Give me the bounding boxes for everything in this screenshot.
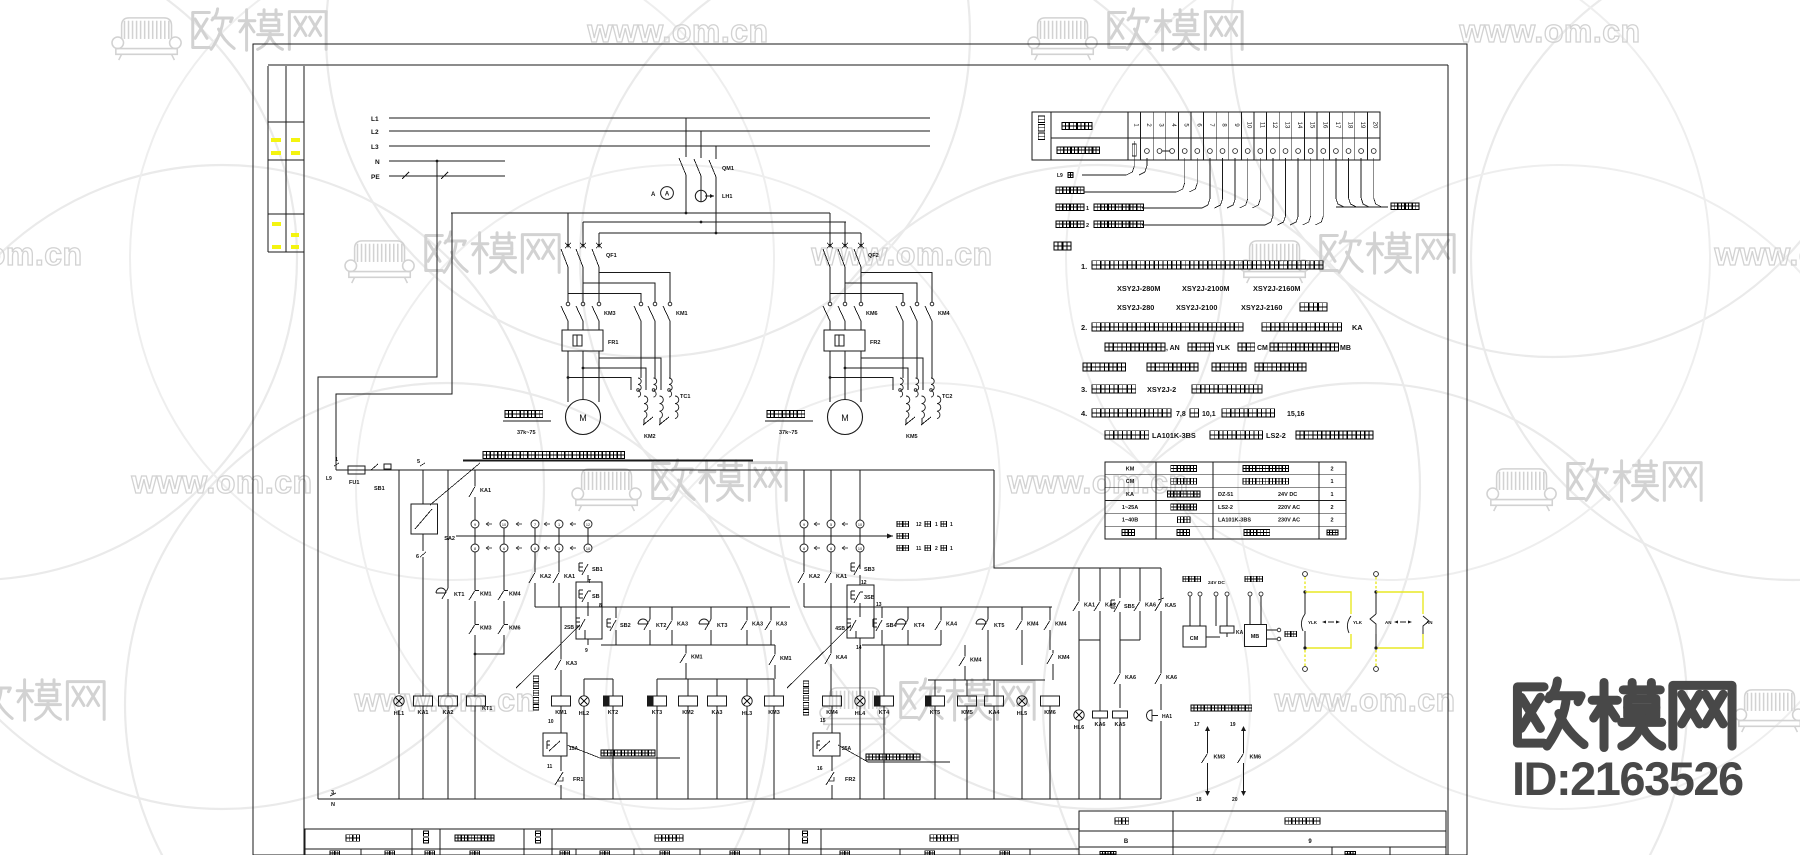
monitor module terminal circles xyxy=(1188,592,1192,596)
chain contacts pump2 xyxy=(872,619,874,627)
svg-text:LS2-2: LS2-2 xyxy=(1266,431,1286,440)
svg-text:1: 1 xyxy=(558,523,560,527)
svg-text:6: 6 xyxy=(416,554,419,560)
main switch QM1 xyxy=(685,118,687,157)
svg-text:KA6: KA6 xyxy=(1145,602,1156,608)
svg-text:5: 5 xyxy=(417,459,420,465)
watermark sofa+logo xyxy=(1735,690,1800,732)
motor M pump2 xyxy=(828,400,863,435)
coil bottom drops pump1 xyxy=(583,706,585,799)
break-glass box pump1 xyxy=(576,582,602,639)
svg-text:www.om.cn: www.om.cn xyxy=(130,464,312,500)
sub rail2 pump2 xyxy=(862,644,941,646)
svg-text:FR2: FR2 xyxy=(870,340,880,346)
thermal contact FR1 xyxy=(555,772,563,785)
svg-text:KT3: KT3 xyxy=(717,623,727,629)
svg-text:10: 10 xyxy=(858,547,862,551)
revision strip yellow marks xyxy=(271,138,281,142)
svg-text:XSY2J-2100: XSY2J-2100 xyxy=(1176,303,1217,312)
wire column KA2 coil xyxy=(447,470,449,587)
watermark arcs xyxy=(326,0,970,357)
svg-text:5: 5 xyxy=(830,523,832,527)
relay contact KA1 right xyxy=(1078,598,1080,601)
timer coil KT4 xyxy=(875,696,894,706)
inner border left xyxy=(303,66,305,855)
svg-text:LS2-2: LS2-2 xyxy=(1218,505,1233,511)
interlock contact KM6 xyxy=(503,621,505,624)
note 4 text line2 xyxy=(1105,431,1149,439)
svg-text:15: 15 xyxy=(820,718,826,724)
title block right xyxy=(1079,811,1446,855)
svg-text:1: 1 xyxy=(950,546,953,552)
svg-text:220V AC: 220V AC xyxy=(1278,505,1300,511)
svg-text:1: 1 xyxy=(1330,492,1333,498)
sheet outer border xyxy=(253,44,1467,855)
push button AN yellow group xyxy=(1374,572,1379,577)
svg-text:KA3: KA3 xyxy=(752,621,763,627)
svg-text:KA: KA xyxy=(1126,492,1134,498)
contactor KM4 xyxy=(901,302,905,306)
svg-text:, AN: , AN xyxy=(1166,345,1180,352)
watermark sofa+logo xyxy=(1487,469,1556,511)
stop button SB3 pump2 xyxy=(850,563,852,571)
svg-text:M: M xyxy=(579,413,587,423)
svg-text:KM4: KM4 xyxy=(1058,655,1071,661)
svg-text:1~25A: 1~25A xyxy=(1122,505,1138,511)
button SB5 xyxy=(1110,600,1112,608)
svg-text:SB5: SB5 xyxy=(1124,604,1135,610)
svg-text:8: 8 xyxy=(599,603,602,609)
svg-text:8: 8 xyxy=(534,547,536,551)
bus phase A wire xyxy=(451,212,830,214)
svg-text:www.om.cn: www.om.cn xyxy=(0,236,83,272)
svg-text:TC1: TC1 xyxy=(680,394,690,400)
thermal relay FR2 xyxy=(824,330,865,351)
svg-text:9: 9 xyxy=(474,523,476,527)
svg-text:16: 16 xyxy=(817,766,823,772)
svg-text:1: 1 xyxy=(335,457,338,463)
svg-text:www.om.cn: www.om.cn xyxy=(810,236,992,272)
node 5 label xyxy=(420,463,425,466)
relay contact KA1 manual xyxy=(558,569,560,572)
right pair join wires xyxy=(1078,611,1080,640)
svg-text:XSY2J-280: XSY2J-280 xyxy=(1117,303,1154,312)
svg-text:18: 18 xyxy=(1347,122,1353,129)
PE ground tick marks xyxy=(402,172,409,179)
starting transformer TC2 xyxy=(900,378,903,397)
svg-text:8: 8 xyxy=(803,547,805,551)
svg-text:KM1: KM1 xyxy=(676,311,688,317)
svg-text:1: 1 xyxy=(1330,479,1333,485)
svg-text:9: 9 xyxy=(585,648,588,654)
svg-text:KM3: KM3 xyxy=(1214,754,1226,760)
relay contact KA2 auto start xyxy=(534,569,536,572)
svg-text:KA3: KA3 xyxy=(566,661,577,667)
terminal circles xyxy=(1132,144,1136,156)
module wires xyxy=(1189,596,1191,626)
relay coil KA3 xyxy=(708,696,727,706)
lamp HL6 xyxy=(1078,640,1080,710)
svg-text:17: 17 xyxy=(1194,722,1200,728)
monitor module MB xyxy=(1245,625,1267,647)
timer contact KT1 xyxy=(436,588,446,593)
svg-text:KA1: KA1 xyxy=(564,574,575,580)
neutral feed wire xyxy=(318,161,437,799)
svg-text:230V AC: 230V AC xyxy=(1278,518,1300,524)
svg-text:SB3: SB3 xyxy=(864,567,875,573)
phase rail L3 xyxy=(389,145,930,147)
svg-text:KT5: KT5 xyxy=(994,623,1004,629)
svg-text:KA5: KA5 xyxy=(1165,603,1176,609)
terminal 3-4 jumper wire xyxy=(1162,150,1171,152)
wire QF1 to contactors xyxy=(567,267,569,302)
svg-text:11: 11 xyxy=(916,546,922,552)
interlock contact KM3 xyxy=(474,621,476,624)
svg-text:L3: L3 xyxy=(371,144,379,151)
relay contact KA5 right xyxy=(1160,598,1162,601)
svg-text:24V DC: 24V DC xyxy=(1208,580,1225,586)
svg-text:KA4: KA4 xyxy=(946,621,958,627)
maintenance branch pump2 xyxy=(831,706,833,733)
terminal strip table xyxy=(1032,112,1380,160)
bus phase C wire xyxy=(599,232,861,234)
svg-text:2: 2 xyxy=(1330,505,1333,511)
wire QF2 to contactors xyxy=(829,267,831,302)
svg-text:A: A xyxy=(651,192,656,198)
lamp HL1 xyxy=(394,696,404,706)
terminal wires fire signal xyxy=(1056,187,1084,194)
interlock contact KM4 xyxy=(503,587,505,590)
svg-text:HA1: HA1 xyxy=(1162,714,1172,720)
terminal wires pump2 remote xyxy=(1056,221,1084,228)
timer coil KT1 xyxy=(467,696,486,706)
crossover taps to TC1 xyxy=(599,358,661,390)
svg-text:KM6: KM6 xyxy=(509,625,521,631)
svg-text:7: 7 xyxy=(534,523,536,527)
svg-text:KM5: KM5 xyxy=(906,434,918,440)
svg-text:B: B xyxy=(1124,839,1129,845)
svg-text:www.om.cn: www.om.cn xyxy=(1006,464,1188,500)
svg-text:19: 19 xyxy=(1359,122,1365,129)
svg-text:8: 8 xyxy=(830,547,832,551)
annotation from fire control room xyxy=(430,463,480,505)
control top bus wire xyxy=(336,469,994,471)
relay KA small box xyxy=(1220,626,1234,633)
ammeter A xyxy=(661,187,674,200)
svg-text:PE: PE xyxy=(371,174,380,181)
contactor coil KM6 xyxy=(1041,696,1060,706)
power junction dots xyxy=(685,212,688,215)
svg-text:10: 10 xyxy=(586,547,590,551)
svg-text:QM1: QM1 xyxy=(722,166,734,172)
motor M pump1 xyxy=(566,400,601,435)
star contactor KM2 xyxy=(643,417,653,425)
lamp HL3 xyxy=(742,696,752,706)
contact KA3 seal xyxy=(560,607,562,656)
svg-text:SB: SB xyxy=(592,594,600,600)
svg-text:KA1: KA1 xyxy=(480,488,491,494)
svg-text:KT1: KT1 xyxy=(454,592,464,598)
coil bottom drops pump2 xyxy=(859,706,861,799)
revision strip table xyxy=(267,66,269,252)
svg-text:DZ-51: DZ-51 xyxy=(1218,492,1233,498)
watermark sofa+logo xyxy=(345,241,414,283)
neutral rail N xyxy=(389,160,505,162)
timer coil KT5 xyxy=(926,696,945,706)
svg-text:KA2: KA2 xyxy=(540,574,551,580)
svg-text:2.: 2. xyxy=(1081,323,1087,332)
svg-text:10: 10 xyxy=(1246,122,1252,129)
svg-text:KA3: KA3 xyxy=(677,621,688,627)
svg-text:9: 9 xyxy=(803,523,805,527)
lamp HL5 xyxy=(1017,696,1027,706)
svg-text:4SB: 4SB xyxy=(835,626,845,632)
wire column selector 3 xyxy=(534,552,536,569)
svg-text:KM1: KM1 xyxy=(780,656,792,662)
maintenance switch box pump1 xyxy=(543,733,567,756)
wire column KA1 coil xyxy=(422,470,424,504)
contactor coil KM3 xyxy=(765,696,784,706)
svg-text:SB2: SB2 xyxy=(620,623,631,629)
bus phase B wire xyxy=(583,221,846,223)
svg-text:LH1: LH1 xyxy=(722,194,732,200)
relay contact KA2 right xyxy=(1099,598,1101,601)
wire column selector 1 xyxy=(474,470,476,483)
relay coil KA6 small xyxy=(1099,640,1101,711)
current transformer LH1 xyxy=(695,190,706,201)
contactor coil KM1 xyxy=(552,696,571,706)
svg-text:10: 10 xyxy=(548,719,554,725)
selector switch SA2 box xyxy=(411,504,438,534)
watermark sofa+logo xyxy=(1028,18,1097,60)
selector contacts row auto xyxy=(471,520,479,528)
svg-text:KA1: KA1 xyxy=(836,574,847,580)
svg-text:KT4: KT4 xyxy=(914,623,925,629)
svg-text:XSY2J-2: XSY2J-2 xyxy=(1147,385,1176,394)
coil drops pump1 xyxy=(612,679,614,696)
svg-text:24V DC: 24V DC xyxy=(1278,492,1297,498)
svg-text:www.om.cn: www.om.cn xyxy=(1458,13,1640,49)
svg-text:6: 6 xyxy=(503,547,505,551)
lamp HL4 xyxy=(855,696,865,706)
watermark sofa+logo xyxy=(112,18,181,60)
svg-text:SB1: SB1 xyxy=(592,567,603,573)
circuit breaker QF2 xyxy=(829,213,831,245)
svg-text:XSY2J-2160M: XSY2J-2160M xyxy=(1253,284,1300,293)
title block left xyxy=(305,829,1079,855)
svg-text:18: 18 xyxy=(1196,797,1202,803)
svg-text:KA4: KA4 xyxy=(836,655,848,661)
svg-text:KA6: KA6 xyxy=(1166,675,1177,681)
svg-text:KM4: KM4 xyxy=(1055,621,1068,627)
svg-text:KM4: KM4 xyxy=(938,311,951,317)
svg-text:2: 2 xyxy=(1330,466,1333,472)
svg-text:16: 16 xyxy=(1321,122,1327,129)
terminal wires pump1 remote xyxy=(1056,204,1084,211)
svg-text:KM3: KM3 xyxy=(604,311,616,317)
wires FR1 to motor xyxy=(567,351,569,402)
svg-text:1: 1 xyxy=(935,522,938,528)
phase rail L2 xyxy=(389,130,930,132)
relay coil KA4 xyxy=(985,696,1004,706)
svg-text:KM4: KM4 xyxy=(509,591,522,597)
svg-text:15,16: 15,16 xyxy=(1287,411,1305,418)
site logo text xyxy=(1517,681,1732,748)
fuse FU1 xyxy=(348,466,365,474)
title block left row2 texts xyxy=(330,851,339,855)
interlock contact KM1 xyxy=(474,587,476,590)
svg-text:LA101K-3BS: LA101K-3BS xyxy=(1218,518,1251,524)
right control columns xyxy=(1078,568,1080,598)
terminal wires external 17-20 xyxy=(1336,158,1344,207)
wire bus to right controls xyxy=(994,470,1161,568)
svg-text:FU1: FU1 xyxy=(349,480,359,486)
svg-text:A: A xyxy=(665,192,670,198)
svg-text:3: 3 xyxy=(558,547,560,551)
svg-text:19: 19 xyxy=(1230,722,1236,728)
wires FR2 to motor xyxy=(829,351,831,402)
relay contact KA1 pump2 xyxy=(830,569,832,572)
relay contact KA2 pump2 xyxy=(803,569,805,572)
svg-text:N: N xyxy=(375,159,380,166)
svg-text:LA101K-3BS: LA101K-3BS xyxy=(1152,431,1196,440)
selector switch SA2 bar xyxy=(456,535,893,537)
sub rail3 pump1 xyxy=(657,678,774,680)
svg-text:20: 20 xyxy=(1372,122,1378,129)
coil drops pump2 xyxy=(934,680,936,696)
svg-text:KM4: KM4 xyxy=(826,710,839,716)
relay coil KA5 small xyxy=(1113,711,1128,718)
contactor KM3 xyxy=(566,302,570,306)
contact KM4 aux a xyxy=(964,645,966,653)
wires KM4 to transformer TC2 xyxy=(902,330,904,378)
contact KM1 aux a xyxy=(685,645,687,650)
selector mode labels xyxy=(897,521,909,527)
svg-text:www.om.cn: www.om.cn xyxy=(1713,236,1800,272)
svg-text:TC2: TC2 xyxy=(942,394,952,400)
svg-text:1~40B: 1~40B xyxy=(1122,518,1138,524)
svg-text:L9: L9 xyxy=(1057,173,1063,179)
wires KM1 to transformer TC1 xyxy=(640,330,642,378)
component table header row xyxy=(1122,530,1135,536)
module output terminals xyxy=(1267,629,1278,631)
inner border top xyxy=(268,64,1448,66)
pump1 name label xyxy=(505,411,543,418)
svg-text:17: 17 xyxy=(1334,122,1340,129)
sub rail2 pump1 xyxy=(601,644,775,646)
control module CM xyxy=(1183,626,1206,647)
svg-text:20: 20 xyxy=(1232,797,1238,803)
svg-text:KA: KA xyxy=(1352,323,1363,332)
pump2 name label xyxy=(767,411,805,418)
svg-text:CM: CM xyxy=(1190,636,1199,642)
horn HA1 xyxy=(1147,710,1152,721)
svg-text:KA3: KA3 xyxy=(776,621,787,627)
timer coil KT3 xyxy=(648,696,667,706)
svg-text:10: 10 xyxy=(502,523,506,527)
annotation maintenance switch pump1 xyxy=(567,745,680,758)
svg-text:L9: L9 xyxy=(326,476,332,482)
svg-text:XSY2J-2160: XSY2J-2160 xyxy=(1241,303,1282,312)
svg-text:KM3: KM3 xyxy=(480,625,492,631)
svg-text:L2: L2 xyxy=(371,129,379,136)
svg-text:2SB: 2SB xyxy=(564,625,574,631)
svg-text:AN: AN xyxy=(1385,620,1392,625)
PE rail xyxy=(389,175,505,177)
relay contact KA1 xyxy=(474,483,476,486)
contact KM4 aux b xyxy=(1052,650,1054,653)
stop button SB1 pump1 xyxy=(578,563,580,571)
crossover taps to TC2 xyxy=(861,358,923,390)
contactor coil KM5 xyxy=(958,696,977,706)
svg-text:KM1: KM1 xyxy=(691,654,703,660)
svg-text:YLK: YLK xyxy=(1308,620,1318,625)
svg-text:KT2: KT2 xyxy=(656,623,666,629)
svg-text:KM4: KM4 xyxy=(970,657,983,663)
selector row arrows xyxy=(486,522,492,526)
node 3 N label xyxy=(330,793,336,796)
watermark sofa+logo xyxy=(820,688,889,730)
svg-text:12: 12 xyxy=(586,523,590,527)
svg-text:KA: KA xyxy=(1236,630,1244,636)
svg-text:2: 2 xyxy=(1330,518,1333,524)
svg-text:KM2: KM2 xyxy=(644,434,656,440)
contact KM1 aux b xyxy=(774,645,776,651)
svg-text:KM1: KM1 xyxy=(480,591,492,597)
notes title xyxy=(1054,242,1071,250)
chain contacts pump1 xyxy=(606,619,608,627)
svg-text:7,8: 7,8 xyxy=(1176,411,1186,418)
inner border right xyxy=(1447,65,1449,855)
svg-text:XSY2J-2100M: XSY2J-2100M xyxy=(1182,284,1229,293)
svg-text:CM: CM xyxy=(1126,479,1135,485)
star contactor KM5 xyxy=(905,417,915,425)
svg-text:FR1: FR1 xyxy=(573,777,583,783)
svg-text:AN: AN xyxy=(1426,620,1433,625)
selector contacts row manual xyxy=(471,544,479,552)
svg-text:FR2: FR2 xyxy=(845,777,855,783)
annotation maintenance switch pump2 xyxy=(838,745,950,762)
contactor coil KM2 xyxy=(679,696,698,706)
note 2 text line3 xyxy=(1083,363,1126,371)
relay coil KA2 xyxy=(439,696,458,706)
svg-text:N: N xyxy=(331,802,335,808)
sub rail3 pump2 xyxy=(928,679,1045,681)
svg-text:25A: 25A xyxy=(842,746,852,752)
svg-text:KA4: KA4 xyxy=(988,710,1000,716)
svg-text:3: 3 xyxy=(331,790,334,796)
svg-text:8: 8 xyxy=(474,547,476,551)
break-glass box pump2 xyxy=(847,585,874,638)
svg-text:1: 1 xyxy=(950,522,953,528)
svg-text:MB: MB xyxy=(1340,345,1351,352)
thermal relay FR1 xyxy=(562,330,603,351)
wire column selector 4 xyxy=(558,552,560,569)
watermark sofa+logo xyxy=(1240,241,1309,283)
monitor module labels xyxy=(1183,576,1201,582)
svg-text:KM6: KM6 xyxy=(1250,754,1262,760)
contact KA6 lower b xyxy=(1160,611,1162,670)
watermark sofa+logo xyxy=(572,469,641,511)
phase rail L1 xyxy=(389,117,930,119)
lamp HL2 xyxy=(579,696,589,706)
svg-text:KA2: KA2 xyxy=(809,574,820,580)
selector column links xyxy=(474,528,476,544)
contactor KM6 xyxy=(828,302,832,306)
svg-text:1: 1 xyxy=(1086,206,1089,212)
svg-text:YLK: YLK xyxy=(1216,345,1230,352)
svg-text:KT1: KT1 xyxy=(482,706,492,712)
